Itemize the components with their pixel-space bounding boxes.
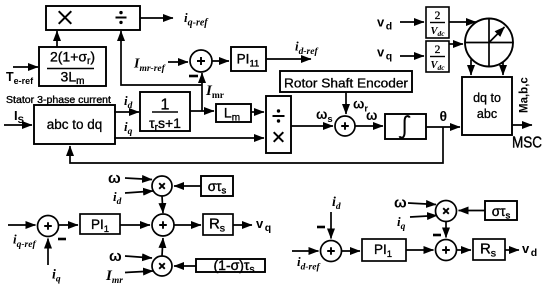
- svg-text:id: id: [332, 195, 341, 212]
- svg-text:IS: IS: [14, 108, 24, 126]
- svg-text:iq-ref: iq-ref: [184, 10, 209, 29]
- svg-text:Stator 3-phase current: Stator 3-phase current: [6, 94, 111, 106]
- svg-text:Imr: Imr: [105, 268, 123, 286]
- svg-text:iq: iq: [52, 268, 61, 285]
- svg-text:2: 2: [435, 10, 441, 22]
- svg-text:PI1: PI1: [91, 217, 109, 235]
- svg-text:ω: ω: [366, 108, 377, 123]
- svg-text:abc: abc: [477, 107, 497, 121]
- svg-text:iq: iq: [397, 214, 406, 232]
- svg-text:Te-ref: Te-ref: [6, 70, 34, 86]
- svg-text:θ: θ: [440, 108, 448, 124]
- svg-text:PI1: PI1: [374, 242, 392, 260]
- svg-text:id: id: [113, 189, 122, 207]
- svg-text:Ma,b,c: Ma,b,c: [519, 77, 531, 113]
- svg-text:ω: ω: [109, 248, 122, 265]
- svg-text:iq-ref: iq-ref: [13, 232, 36, 251]
- svg-text:abc to dq: abc to dq: [47, 117, 103, 132]
- svg-text:id-ref: id-ref: [297, 254, 320, 273]
- svg-text:id: id: [124, 93, 133, 111]
- svg-text:ω: ω: [394, 195, 407, 212]
- svg-text:Rs: Rs: [480, 241, 496, 260]
- svg-text:vq: vq: [377, 45, 392, 63]
- svg-text:PI11: PI11: [237, 52, 260, 70]
- svg-text:2(1+σr): 2(1+σr): [50, 49, 95, 68]
- svg-text:Vdc: Vdc: [430, 60, 445, 72]
- svg-text:MSC: MSC: [512, 135, 542, 152]
- svg-text:τrs+1: τrs+1: [149, 115, 181, 134]
- svg-text:vd: vd: [522, 241, 537, 259]
- svg-text:iq: iq: [124, 119, 133, 137]
- svg-text:Rotor Shaft Encoder: Rotor Shaft Encoder: [284, 76, 409, 91]
- svg-text:2: 2: [435, 44, 441, 56]
- svg-text:1: 1: [161, 97, 170, 114]
- svg-text:Vdc: Vdc: [430, 26, 445, 38]
- svg-text:Imr: Imr: [205, 83, 225, 101]
- svg-text:στs: στs: [492, 204, 511, 222]
- svg-text:Rs: Rs: [209, 216, 225, 235]
- svg-text:ωs: ωs: [316, 107, 333, 125]
- svg-text:(1-σ)τs: (1-σ)τs: [214, 257, 255, 276]
- svg-text:3Lm: 3Lm: [61, 69, 85, 88]
- svg-text:Lm: Lm: [224, 105, 240, 124]
- svg-text:ω: ω: [108, 170, 121, 187]
- svg-text:dq to: dq to: [473, 91, 501, 105]
- svg-text:id-ref: id-ref: [295, 39, 318, 58]
- svg-text:vq: vq: [256, 216, 271, 234]
- svg-text:στs: στs: [208, 179, 227, 197]
- svg-text:vd: vd: [377, 15, 392, 33]
- svg-text:Imr-ref: Imr-ref: [133, 57, 166, 75]
